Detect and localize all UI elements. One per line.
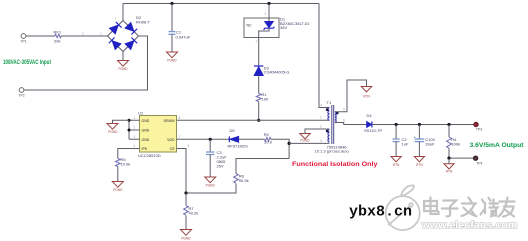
svg-text:1: 1 — [134, 116, 136, 120]
ground PGND C3 — [205, 177, 216, 187]
capacitor C2 — [393, 137, 409, 147]
svg-text:D4: D4 — [367, 113, 373, 118]
wire C3 to PGND — [209, 155, 211, 178]
svg-text:1: 1 — [320, 116, 322, 120]
ground RTN R4 — [444, 164, 454, 174]
wire aux top pin to PGND — [305, 129, 330, 134]
svg-text:DRAIN: DRAIN — [164, 119, 175, 123]
svg-text:3.6V/5mA Output: 3.6V/5mA Output — [470, 142, 525, 149]
node junction C100 — [418, 123, 421, 126]
svg-text:PGND: PGND — [108, 130, 118, 134]
svg-text:8: 8 — [179, 116, 181, 120]
wire bridge right to TP2 — [24, 36, 148, 90]
resistor RF1 — [54, 29, 62, 43]
box D1 component body — [244, 18, 279, 38]
svg-text:90.9k: 90.9k — [239, 178, 249, 183]
svg-text:UCC28910D: UCC28910D — [138, 153, 161, 158]
wire R6 to CS node — [186, 184, 236, 194]
svg-text:Functional Isolation Only: Functional Isolation Only — [292, 161, 378, 168]
svg-text:VDD: VDD — [167, 138, 175, 142]
ground PGND R5 — [112, 182, 123, 192]
node junction C1 tap — [170, 2, 173, 5]
wire R4 to RTN — [448, 158, 450, 164]
node junction gnd1 — [128, 119, 131, 122]
svg-text:3: 3 — [320, 139, 322, 143]
svg-text:100: 100 — [262, 97, 269, 102]
wire R4 bottom to TP4 — [449, 148, 473, 158]
wire secondary bottom to D4 — [335, 123, 367, 125]
svg-text:PGND: PGND — [167, 58, 177, 62]
svg-text:www.elecfans.com: www.elecfans.com — [421, 220, 518, 232]
wire VDD to C3 — [209, 139, 211, 152]
svg-text:GND: GND — [142, 119, 150, 123]
node junction CS R7 — [184, 191, 187, 194]
node junction R4 bottom — [447, 157, 450, 160]
svg-text:RTN: RTN — [363, 95, 370, 99]
zener diode D1 — [259, 17, 310, 38]
wire rail to C1 — [171, 4, 173, 32]
svg-text:1: 1 — [100, 32, 102, 36]
wire output rail — [372, 124, 475, 126]
capacitor C100 — [414, 135, 436, 147]
svg-text:25V: 25V — [217, 164, 224, 169]
wire R1 to drain net — [258, 102, 260, 121]
svg-text:PGND: PGND — [206, 183, 216, 187]
svg-text:4: 4 — [134, 144, 136, 148]
svg-text:RF071M2S: RF071M2S — [228, 143, 249, 148]
svg-text:TP1: TP1 — [20, 40, 26, 44]
svg-text:TP3: TP3 — [476, 127, 482, 131]
svg-text:RTN: RTN — [393, 163, 400, 167]
transformer T1 — [315, 100, 350, 153]
wire RF1 to bridge — [61, 35, 108, 37]
svg-text:PGND: PGND — [118, 67, 128, 71]
T1 core — [332, 105, 334, 144]
node junction C3 tap — [209, 138, 212, 141]
resistor R6 — [234, 173, 249, 183]
resistor R4 — [447, 137, 460, 148]
watermark logo circle — [386, 185, 420, 230]
wire D1 box to D3 — [258, 38, 260, 67]
bridge diode top-left — [110, 22, 122, 34]
ground RTN secondary — [361, 87, 371, 99]
svg-text:IPK: IPK — [142, 147, 148, 151]
node junction C2 — [395, 123, 398, 126]
svg-text:+: + — [115, 17, 117, 21]
wire gnd bus to PGND — [113, 120, 130, 123]
wire R2 to aux — [271, 139, 289, 158]
wire D3 to R1 — [258, 76, 260, 94]
svg-text:5: 5 — [188, 144, 190, 148]
wire R5 to PGND — [117, 167, 119, 182]
svg-text:D5: D5 — [230, 128, 236, 133]
bridge diode bottom-right — [125, 38, 137, 50]
bridge diode top-right — [125, 23, 137, 35]
resistor R1 — [256, 92, 269, 101]
svg-text:R2: R2 — [264, 132, 270, 137]
svg-text:108VAC-305VAC Input: 108VAC-305VAC Input — [3, 60, 51, 66]
T1 secondary winding — [335, 112, 336, 123]
resistor R5 — [115, 157, 130, 166]
wire C100 to RTN — [418, 142, 420, 157]
wire U1 GND pins bus — [129, 120, 140, 139]
wire TP1 to RF1 — [26, 35, 55, 37]
svg-text:RTN: RTN — [416, 163, 423, 167]
node junction drain — [257, 119, 260, 122]
diode D3 — [254, 65, 289, 75]
wire to R7 — [185, 193, 187, 206]
test point TP3 — [474, 122, 479, 127]
wire to R6 — [236, 159, 289, 174]
svg-text:-: - — [125, 52, 126, 56]
wire U1 VDD net — [177, 138, 230, 140]
svg-text:RH06-T: RH06-T — [136, 19, 151, 24]
svg-text:20.0: 20.0 — [264, 139, 273, 144]
svg-text:10:1.3 (pri:sec:aux): 10:1.3 (pri:sec:aux) — [315, 149, 350, 154]
wire rail down to T1 primary — [319, 4, 330, 108]
svg-text:~: ~ — [140, 31, 142, 35]
capacitor C3 — [206, 150, 227, 169]
wire U1 CS pin — [177, 149, 187, 194]
wire C2 to RTN — [395, 142, 397, 157]
bridge diode bottom-left — [109, 38, 121, 50]
wire rail to D1 box — [268, 4, 270, 19]
svg-text:1uF: 1uF — [402, 142, 409, 147]
svg-text:2: 2 — [265, 12, 267, 16]
ground PGND R7 — [181, 230, 192, 241]
svg-text:39uF: 39uF — [425, 142, 435, 147]
svg-text:T1: T1 — [327, 100, 332, 105]
ground PGND bridge — [118, 61, 129, 72]
watermark chinese characters — [424, 198, 515, 217]
svg-text:4: 4 — [320, 104, 322, 108]
svg-text:0.047uF: 0.047uF — [176, 35, 191, 40]
svg-text:RF1: RF1 — [54, 29, 62, 34]
wire bridge top to rail — [122, 4, 124, 21]
svg-text:RTN: RTN — [446, 170, 453, 174]
svg-text:SS110-TP: SS110-TP — [364, 128, 382, 133]
svg-text:U1: U1 — [138, 111, 144, 116]
ground PGND aux — [300, 134, 310, 143]
svg-text:TP4: TP4 — [476, 161, 482, 165]
wire secondary top to RTN — [335, 80, 367, 112]
op-amp U1 body — [138, 111, 177, 158]
wire IPK to R5 — [118, 149, 140, 159]
svg-text:7: 7 — [179, 135, 181, 139]
svg-text:2: 2 — [134, 126, 136, 130]
ground PGND U1 — [107, 124, 118, 134]
ground PGND C1 — [167, 52, 178, 62]
svg-text:2: 2 — [82, 32, 84, 36]
svg-text:100k: 100k — [451, 142, 460, 147]
test point TP4 — [473, 156, 478, 161]
resistor R7 — [184, 206, 199, 216]
svg-text:CS: CS — [170, 147, 176, 151]
svg-text:36V: 36V — [280, 25, 287, 30]
node junction R4 — [447, 123, 450, 126]
test point TP2 — [19, 88, 24, 93]
T1 aux winding — [328, 129, 330, 142]
diode D4 — [364, 113, 382, 133]
svg-text:20k: 20k — [54, 39, 60, 44]
wire drain net U1 to T1 — [177, 119, 330, 121]
node junction aux — [288, 142, 291, 145]
ground RTN C100 — [414, 157, 424, 167]
diode D5 — [228, 128, 249, 148]
wire to C100 — [418, 125, 420, 140]
capacitor C1 — [169, 30, 191, 40]
wire R7 to PGND — [185, 216, 187, 230]
svg-text:GND: GND — [142, 138, 150, 142]
node junction D1 tap — [267, 2, 270, 5]
svg-text:5: 5 — [343, 108, 345, 112]
wire to R4 — [448, 125, 450, 138]
test point TP1 — [21, 34, 26, 39]
wire aux bottom pin — [289, 142, 329, 144]
T1 primary winding — [328, 108, 330, 121]
svg-text:PGND: PGND — [113, 188, 123, 192]
wire bridge bottom to ground — [122, 52, 124, 61]
ground RTN C2 — [391, 157, 401, 167]
svg-text:PGND: PGND — [300, 138, 310, 142]
wire C1 to ground — [171, 34, 173, 52]
resistor R2 — [239, 132, 273, 144]
svg-text:NC: NC — [247, 24, 253, 28]
svg-text:3: 3 — [134, 135, 136, 139]
svg-text:PGND: PGND — [181, 237, 191, 241]
svg-text:ybx8.cn: ybx8.cn — [349, 204, 412, 221]
bridge rectifier D2 diamond — [108, 21, 139, 52]
node junction gnd2 — [128, 129, 131, 132]
wire top rail — [123, 3, 319, 5]
svg-text:40.2k: 40.2k — [189, 211, 199, 216]
svg-text:10.0k: 10.0k — [121, 162, 131, 167]
svg-text:CGRM4005-G: CGRM4005-G — [264, 70, 290, 75]
svg-text:TP2: TP2 — [18, 93, 24, 97]
svg-text:6: 6 — [343, 118, 345, 122]
svg-text:1: 1 — [256, 40, 258, 44]
svg-text:GND: GND — [142, 129, 150, 133]
svg-text:2: 2 — [320, 125, 322, 129]
wire to C2 — [395, 125, 397, 140]
